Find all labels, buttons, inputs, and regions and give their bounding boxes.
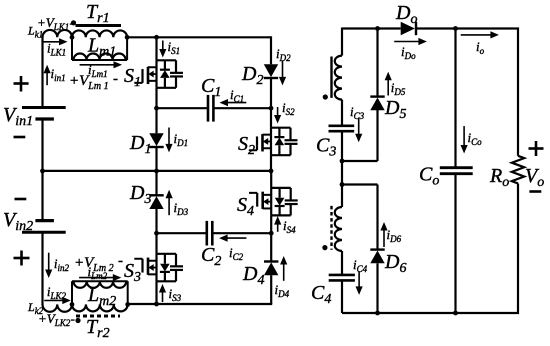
diode Do (401, 22, 415, 35)
svg-text:S4: S4 (237, 194, 254, 219)
wire C4 to bottom rail (341, 280, 343, 313)
wire D3 anode to C2 node (155, 209, 157, 233)
node joint left-mid (40, 169, 45, 174)
transformer T r2 core bar (dashed) (76, 315, 120, 318)
wire right rail bottom (517, 184, 519, 315)
svg-text:S2: S2 (238, 133, 255, 158)
svg-text:Tr1: Tr1 (86, 1, 110, 26)
svg-text:Co: Co (419, 164, 439, 189)
arrow iC4 (358, 271, 360, 287)
wire C2 node to D4 cathode (270, 233, 272, 261)
svg-text:C1: C1 (201, 75, 221, 100)
inductor Lm1 bottom winding (71, 37, 73, 60)
svg-text:D5: D5 (384, 97, 406, 122)
svg-text:iC4: iC4 (353, 257, 368, 274)
svg-text:iS1: iS1 (168, 39, 181, 56)
wire secondary mid rail (341, 161, 343, 185)
node Lk1-Lm1 junction (70, 35, 75, 40)
node output top junction (453, 26, 458, 31)
node S1 drain junction (154, 35, 159, 40)
wire C2 node to S3 drain (155, 233, 157, 254)
svg-text:iDo: iDo (401, 44, 416, 61)
label + (Vo) (529, 147, 544, 150)
wire D5 cathode to top node (376, 29, 378, 97)
capacitor C1 (207, 95, 210, 122)
wire left rail Vin1 to Vin2 (41, 119, 43, 221)
svg-text:D6: D6 (384, 251, 406, 276)
arrow iD5 (387, 80, 389, 96)
resistor Ro (512, 156, 524, 184)
wire secondary top (left rail to Do) (342, 27, 401, 29)
node mid rail S2-S4 junction (269, 169, 274, 174)
node Co bottom junction (453, 311, 458, 316)
svg-text:D1: D1 (129, 132, 151, 157)
arrow iCo (463, 126, 465, 145)
svg-text:C3: C3 (316, 135, 336, 160)
diode D6 (370, 251, 384, 264)
node D6 bottom junction (375, 311, 380, 316)
wire D5 anode stub (342, 160, 378, 162)
switch S4 (MOSFET with body diode and capacitor) (271, 187, 291, 189)
wire D2 cathode to C1 node (270, 78, 272, 108)
arrow iC3 (358, 119, 360, 135)
wire output top to right rail (456, 27, 520, 29)
wire left rail Vin2 to bottom (41, 232, 43, 305)
node Lk2-Lm2 junction (70, 302, 75, 307)
wire right rail top (517, 28, 519, 156)
diode D1 (149, 133, 163, 146)
wire S1 source to C1 node (155, 88, 157, 108)
voltage source Vin2 (35, 219, 54, 222)
label - (Vin2 negative) (15, 198, 27, 201)
arrow iLm1 (80, 64, 114, 66)
wire S4 drain lead (270, 171, 272, 188)
svg-text:iLK2: iLK2 (47, 284, 67, 301)
node Lm2 right junction (125, 302, 130, 307)
node S3 source junction (154, 302, 159, 307)
wire secondary left rail top (341, 28, 343, 56)
svg-text:io: io (476, 39, 485, 56)
svg-text:Vo: Vo (525, 165, 544, 190)
capacitor C4 (329, 274, 355, 277)
inductor Lm2 bottom winding (72, 304, 128, 311)
svg-text:-: - (113, 71, 118, 87)
svg-text:Lm1: Lm1 (87, 35, 116, 60)
wire C2 right lead (212, 232, 271, 234)
label + (Vin1 positive) (14, 82, 29, 85)
svg-text:D3: D3 (129, 182, 151, 207)
wire S2 source to mid rail (270, 155, 272, 171)
svg-text:+VLK2: +VLK2 (38, 311, 71, 328)
arrow iD2 (282, 60, 284, 77)
node C3-D5 junction (340, 159, 345, 164)
wire C2 left lead (157, 232, 207, 234)
wire winding1 to C3 (341, 100, 343, 126)
capacitor C3 (329, 125, 355, 128)
wire D6 cathode stub (342, 183, 378, 185)
arrow iDo (394, 41, 419, 43)
arrow iLK2 (44, 300, 63, 302)
wire Do cathode to output node (416, 27, 456, 29)
svg-text:+VLK1: +VLK1 (37, 15, 69, 32)
node C1 right junction (269, 106, 274, 111)
svg-text:Do: Do (395, 2, 417, 27)
transformer Tr1 secondary core bar (330, 57, 332, 98)
inductor Lk2 (43, 304, 73, 311)
transformer Tr2 secondary core bar (dashed) (330, 206, 332, 250)
wire Lm1 to D2 (top node) (127, 36, 271, 38)
svg-text:iC2: iC2 (229, 245, 244, 262)
label - (Vin1 negative) (14, 136, 26, 139)
svg-text:Ro: Ro (489, 165, 509, 190)
svg-text:iS3: iS3 (169, 286, 182, 303)
wire D3 cathode lead (155, 171, 157, 195)
switch S3 (MOSFET with body diode and capacitor) (157, 253, 177, 255)
node Lm1 right junction (125, 35, 130, 40)
svg-text:iin2: iin2 (54, 256, 70, 273)
inductor Lk1 (43, 30, 73, 37)
arrow iLm2 (79, 277, 113, 279)
capacitor C2 (206, 221, 209, 246)
arrow iS3 (162, 292, 164, 302)
svg-text:iD4: iD4 (275, 282, 290, 299)
wire S2 drain lead (270, 108, 272, 128)
arrow iS1 (162, 41, 164, 50)
svg-text:+VLm 2: +VLm 2 (74, 255, 114, 274)
wire C1 left lead (157, 107, 209, 109)
diode D2 (264, 64, 278, 77)
label - (Vo) (529, 190, 541, 193)
svg-text:iCo: iCo (468, 130, 483, 147)
svg-text:C2: C2 (201, 244, 221, 269)
label + (Vin2 positive) (14, 257, 30, 260)
transformer Tr1 secondary winding (335, 56, 342, 100)
inductor Lm1 top winding (72, 30, 127, 37)
svg-text:iC1: iC1 (230, 87, 244, 104)
switch S2 (MOSFET with body diode and capacitor) (271, 127, 291, 129)
wire S4 source to C2 node (270, 215, 272, 233)
transformer T r1 core bar (76, 24, 122, 27)
wire D6 anode to bottom rail (376, 263, 378, 313)
wire Co bottom lead (454, 174, 456, 313)
arrow io (461, 34, 491, 36)
node C2 left junction (154, 231, 159, 236)
wire secondary bottom rail (342, 312, 519, 314)
wire S3 source to bottom rail (155, 281, 157, 305)
wire D2 anode lead (270, 36, 272, 64)
arrow iC1 (228, 102, 247, 104)
diode D3 (149, 196, 163, 209)
svg-text:iD6: iD6 (387, 227, 402, 244)
svg-text:Lm2: Lm2 (87, 284, 116, 309)
svg-text:-: - (71, 311, 75, 326)
node mid rail D1-D3 junction (154, 169, 159, 174)
svg-text:D4: D4 (242, 263, 264, 288)
node D6 stub junction (340, 182, 345, 187)
switch S1 (MOSFET with body diode and capacitor) (157, 59, 177, 61)
polarity dot Tr1 secondary (323, 94, 328, 99)
svg-text:C4: C4 (311, 282, 331, 307)
polarity dot Tr2 primary (75, 318, 80, 323)
svg-text:iC3: iC3 (350, 104, 365, 121)
node C1 left junction (154, 106, 159, 111)
wire C1 node to D1 (155, 108, 157, 133)
diode D5 (370, 98, 384, 111)
wire winding2 top lead (341, 185, 343, 208)
wire S1 drain (155, 37, 157, 60)
inductor Lm2 top winding (72, 280, 128, 282)
svg-text:Vin2: Vin2 (3, 209, 33, 234)
arrow iC2 (227, 237, 246, 239)
polarity dot Tr1 primary (71, 20, 76, 25)
node C2 right junction (269, 231, 274, 236)
svg-text:iD5: iD5 (391, 80, 406, 97)
wire Co top lead (454, 29, 456, 168)
wire winding2 to C4 (341, 251, 343, 275)
svg-text:iD2: iD2 (276, 46, 291, 63)
wire left input rail (top, Vin1 plus terminal to Lk1) (41, 36, 43, 107)
svg-text:iin1: iin1 (51, 66, 66, 83)
arrow iin2 (48, 253, 50, 270)
transformer Tr2 secondary winding (335, 207, 342, 251)
arrow iD6 (383, 230, 385, 247)
node D5 top junction (375, 26, 380, 31)
svg-text:D2: D2 (241, 63, 263, 88)
svg-text:iS2: iS2 (282, 100, 295, 117)
arrow iD4 (283, 264, 285, 281)
arrow iD3 (168, 198, 170, 216)
wire C1 right lead (213, 107, 271, 109)
svg-text:iD1: iD1 (174, 131, 189, 148)
arrow iD1 (168, 128, 170, 145)
arrow iLK1 (43, 41, 60, 43)
capacitor Co (440, 166, 473, 169)
wire middle rail (43, 170, 272, 172)
wire C3 to D5 node (341, 131, 343, 161)
diode D4 (264, 262, 278, 275)
wire D1 cathode to mid rail (155, 147, 157, 171)
arrow iS4 (277, 224, 279, 232)
arrow iS2 (277, 107, 279, 116)
polarity dot Tr2 secondary (322, 245, 327, 250)
svg-text:iD3: iD3 (174, 200, 189, 217)
voltage source Vin1 (22, 106, 66, 109)
arrow iin1 (46, 73, 48, 85)
svg-text:iS4: iS4 (283, 218, 296, 235)
svg-text:S1: S1 (124, 65, 141, 90)
wire D4 anode to bottom rail (270, 275, 272, 304)
svg-text:Tr2: Tr2 (86, 316, 110, 341)
svg-text:-: - (118, 253, 123, 269)
